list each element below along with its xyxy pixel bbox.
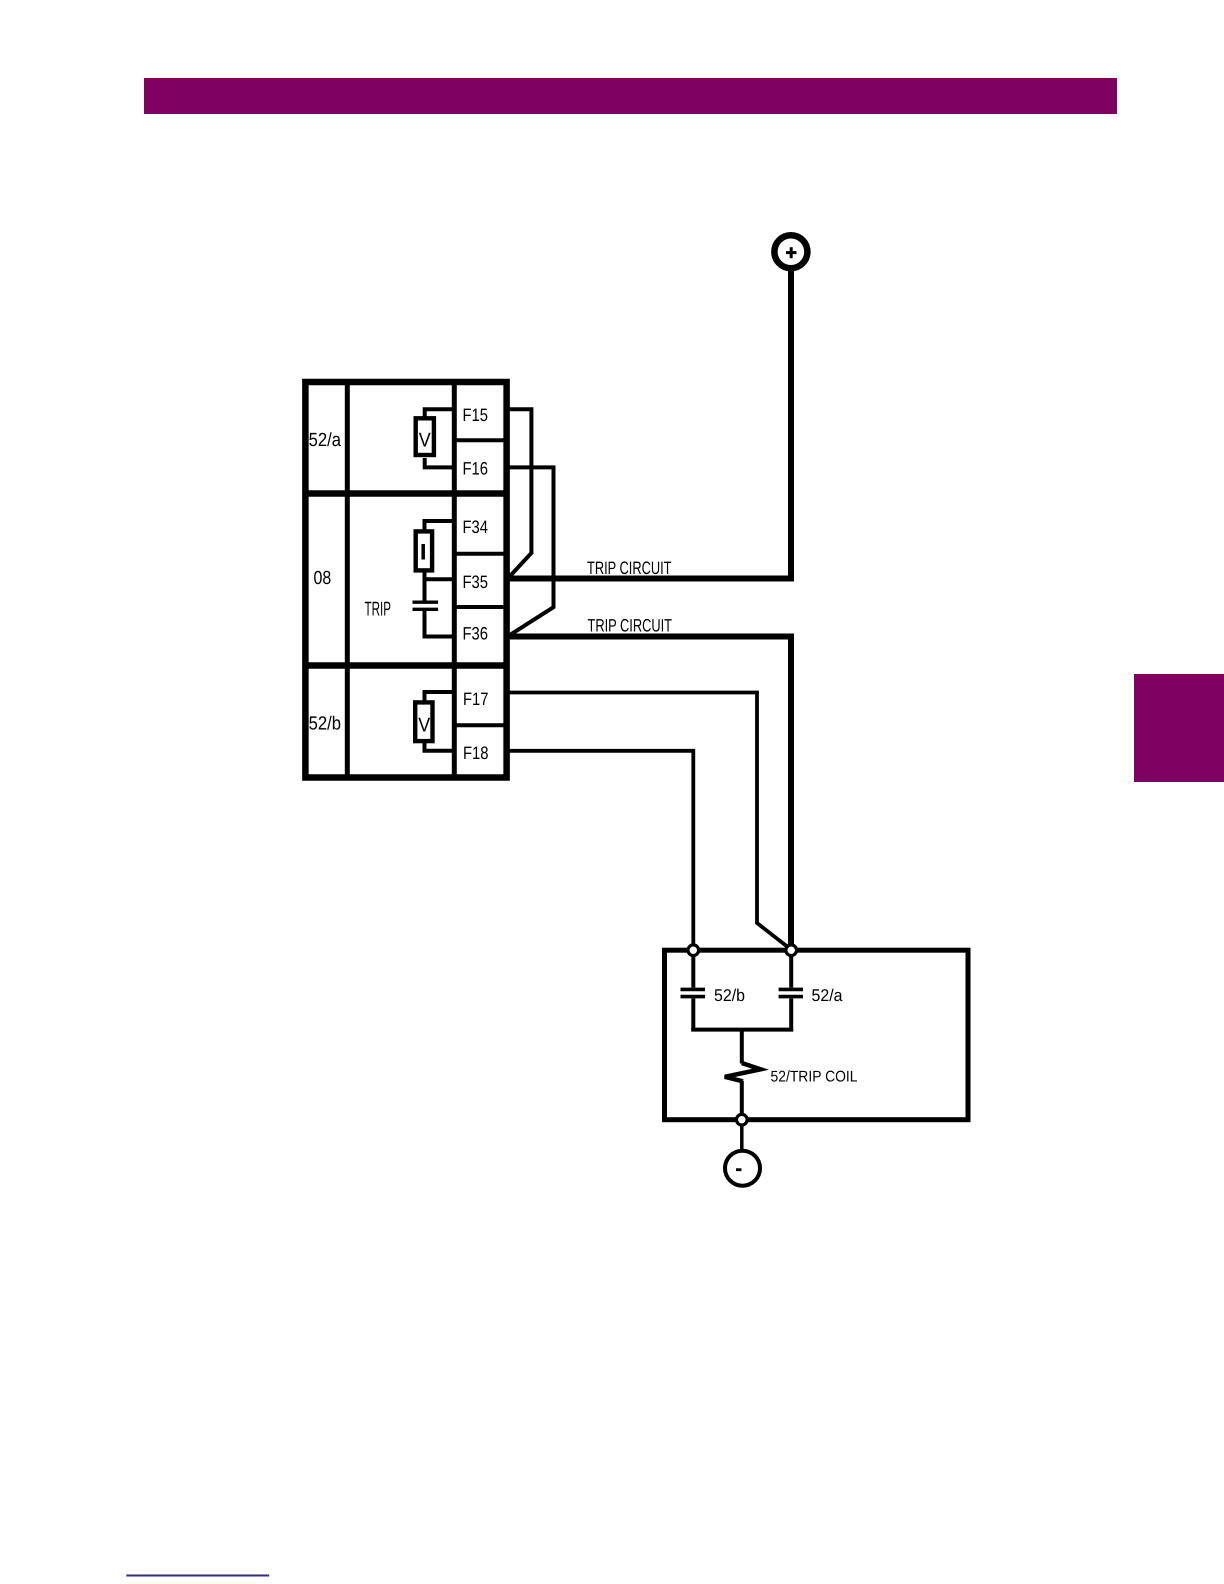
wire: V1 bottom to F16 (425, 458, 455, 467)
svg-text:TRIP CIRCUIT: TRIP CIRCUIT (587, 558, 672, 578)
wire: positive supply lead (788, 271, 794, 579)
svg-text:52/b: 52/b (309, 714, 341, 735)
wire: negative lead (740, 1125, 744, 1151)
current element I row2 (416, 531, 432, 570)
voltage element V row1 (416, 418, 434, 455)
svg-text:TRIP: TRIP (365, 599, 392, 621)
svg-text:F34: F34 (463, 517, 489, 537)
relay block outline (305, 382, 506, 778)
junction F18 branch (688, 945, 699, 956)
svg-text:52/a: 52/a (812, 986, 844, 1005)
voltage element V row3 (415, 702, 432, 741)
relay row divider 52a/08 (305, 490, 506, 497)
terminal divider F17/F18 (454, 723, 506, 727)
svg-text:F16: F16 (463, 459, 489, 479)
wire: capacitor to F36 (425, 611, 455, 637)
wire: coil stem upper (740, 1030, 744, 1064)
wire: F17 to coil box (505, 693, 791, 950)
svg-text:V: V (418, 715, 431, 737)
wire: 52/b branch upper (691, 952, 695, 988)
junction coil bottom (737, 1114, 748, 1125)
wire: trip circuit F36 (504, 637, 791, 948)
wire: jumper F16 to F36 (505, 467, 554, 634)
wire: trip circuit F35 (504, 576, 794, 582)
terminal divider F15/F16 (454, 438, 506, 442)
svg-text:08: 08 (314, 568, 332, 589)
terminal divider F34/F35 (454, 552, 506, 556)
svg-text:F15: F15 (463, 405, 489, 425)
positive supply terminal (774, 235, 807, 268)
contact 52/b (681, 989, 706, 996)
relay column divider left (345, 382, 350, 778)
negative supply terminal (725, 1151, 760, 1186)
wire: tap to F35 (425, 577, 455, 581)
svg-text:52/a: 52/a (309, 430, 342, 451)
wire: contacts connector (691, 1028, 793, 1032)
sidebar tab (1134, 674, 1224, 782)
relay column divider right (452, 382, 457, 778)
svg-text:TRIP CIRCUIT: TRIP CIRCUIT (588, 616, 673, 636)
header bar (144, 78, 1117, 114)
wire: 52/a branch upper (789, 952, 793, 988)
relay row divider 08/52b (305, 662, 506, 669)
svg-text:52/b: 52/b (714, 986, 745, 1005)
terminal divider F35/F36 (454, 605, 506, 609)
svg-text:F17: F17 (463, 689, 489, 709)
wire: jumper F15 to F35 (505, 409, 531, 576)
resistor 52/TRIP COIL (725, 1063, 761, 1081)
wire: V1 top to F15 (425, 409, 455, 417)
footer rule (126, 1575, 269, 1577)
svg-text:F35: F35 (463, 572, 489, 592)
svg-text:F18: F18 (463, 743, 489, 763)
svg-text:V: V (419, 430, 432, 452)
wire: F18 to coil box (505, 751, 693, 946)
wire: V2 top to F17 (425, 692, 455, 701)
wire: 52/a branch lower (789, 998, 793, 1031)
breaker coil box (665, 950, 969, 1119)
wire: I top to F34 (425, 521, 455, 530)
capacitor plates (413, 602, 439, 609)
wire: 52/b branch lower (691, 998, 695, 1031)
wire: coil stem lower (740, 1081, 744, 1120)
contact 52/a (779, 989, 803, 996)
svg-text:F36: F36 (463, 624, 489, 644)
junction trip branch (786, 945, 797, 956)
svg-text:52/TRIP COIL: 52/TRIP COIL (771, 1069, 858, 1086)
wire: I bottom junction (423, 570, 427, 601)
wire: V2 bottom to F18 (425, 743, 455, 751)
